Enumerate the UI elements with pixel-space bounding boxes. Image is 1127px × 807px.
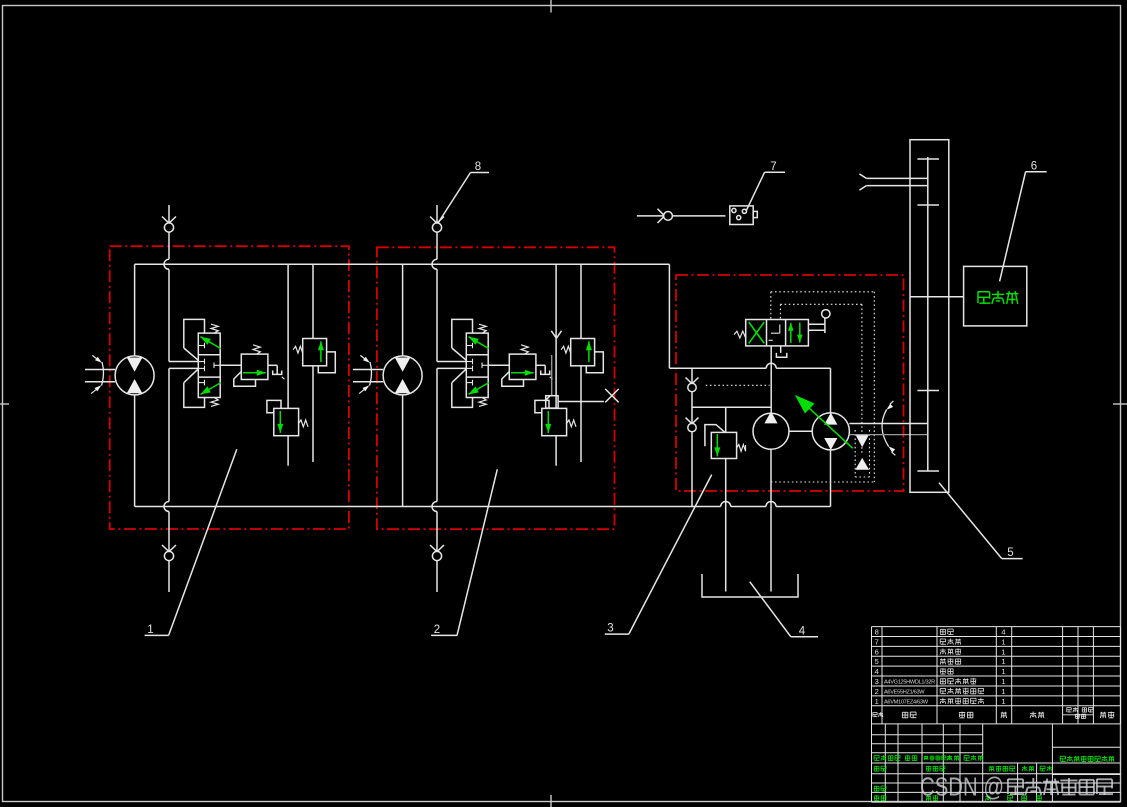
svg-text:A6VE55HZ1/63W: A6VE55HZ1/63W <box>884 689 925 695</box>
test coupling on line 7 <box>637 215 726 217</box>
svg-text:1: 1 <box>875 697 879 706</box>
charge check valve upper <box>855 434 869 447</box>
wire entry drop to pump group <box>668 264 670 368</box>
leader 8 <box>471 172 490 174</box>
gear tooth tick 1 <box>917 158 939 160</box>
svg-text:1: 1 <box>1001 697 1005 706</box>
svg-text:1: 1 <box>1001 647 1005 656</box>
leader 1 <box>145 634 169 636</box>
wire circuit1 left vertical lower <box>134 395 136 507</box>
proportional directional valve group, circuit 1 <box>184 319 205 348</box>
plugged port X symbol <box>605 389 619 403</box>
svg-text:7: 7 <box>875 637 879 646</box>
svg-text:A4VG125HWDL1/32R: A4VG125HWDL1/32R <box>884 680 935 686</box>
hydraulic fan motor M2 with fan symbol <box>383 356 422 395</box>
charge relief outlet to tank <box>725 459 727 592</box>
wire top rail <box>135 263 670 265</box>
hydraulic fan motor M1 with fan symbol <box>115 356 154 395</box>
wire circuit2 left vertical upper <box>402 264 404 356</box>
drain Y symbol, circuit 2 <box>551 331 556 339</box>
gearbox input fork <box>866 177 927 179</box>
charge relief inlet vertical <box>725 407 727 432</box>
svg-text:6: 6 <box>875 647 879 656</box>
gear tooth tick 4 <box>917 470 939 472</box>
svg-text:CSDN @: CSDN @ <box>920 772 1004 802</box>
svg-text:1: 1 <box>1001 657 1005 666</box>
pilot valve supply vertical <box>770 346 772 413</box>
dotted control envelope outer <box>771 291 875 293</box>
pump interconnect line <box>789 430 812 432</box>
wire variable pump outlet vertical <box>830 450 832 507</box>
svg-text:1: 1 <box>1001 637 1005 646</box>
wire circuit2 left vertical lower <box>402 395 404 507</box>
svg-text:8: 8 <box>875 628 879 637</box>
title block green field labels <box>873 755 875 760</box>
proportional directional valve group, circuit 2 <box>452 319 473 348</box>
svg-text:8: 8 <box>475 161 481 173</box>
gear tooth tick 3 <box>917 390 939 392</box>
svg-text:4: 4 <box>875 667 879 676</box>
gauge line with test couplings, circuit 1 <box>168 205 170 223</box>
charge pump P1 <box>753 413 789 449</box>
centering tick top <box>550 0 552 13</box>
dotted control envelope inner <box>780 303 862 305</box>
svg-text:5: 5 <box>1007 547 1013 559</box>
leader 2 <box>431 634 457 636</box>
leader 5 <box>1002 558 1023 560</box>
svg-text:1: 1 <box>1001 677 1005 686</box>
pump group left vertical with test couplings <box>691 368 693 383</box>
leader 7 <box>765 171 785 173</box>
variable control green arrow <box>799 399 853 449</box>
plugged port line, circuit 2 <box>558 401 604 403</box>
gearbox internal shaft <box>927 157 929 471</box>
svg-text:7: 7 <box>770 161 776 173</box>
svg-text:4: 4 <box>799 625 806 637</box>
centering tick right <box>1113 403 1127 405</box>
pump drive shaft double line <box>849 423 927 425</box>
charge relief valve <box>711 432 736 458</box>
red dash-dot enclosure box 3 (pump group) <box>676 275 904 491</box>
centering tick bottom <box>550 795 552 807</box>
shaft rotation arrow <box>882 410 889 447</box>
pilot/servo control valve on pump <box>746 320 809 346</box>
title block grid <box>872 734 983 736</box>
svg-text:2: 2 <box>875 687 879 696</box>
wire pump suction header (with crossover jump) <box>669 367 766 369</box>
pilot line gray vertical, circuit 2 <box>551 355 553 396</box>
dotted check valve channel <box>854 430 856 477</box>
svg-text:3: 3 <box>875 677 879 686</box>
wire bottom return rail (with crossover jumps) <box>135 506 721 508</box>
pilot valve drain to tank symbol <box>780 346 782 353</box>
gauge line with test couplings, circuit 2 <box>436 205 438 223</box>
red dash-dot enclosure box 1 (fan drive circuit 1) <box>110 246 349 529</box>
wire variable pump inlet vertical <box>830 368 832 413</box>
svg-text:6: 6 <box>1031 160 1037 172</box>
svg-text:1: 1 <box>1001 687 1005 696</box>
centering tick left <box>0 403 9 405</box>
svg-text:4: 4 <box>1001 628 1005 637</box>
BOM header text <box>872 712 874 716</box>
engine box <box>964 266 1027 326</box>
svg-text:1: 1 <box>1001 667 1005 676</box>
pilot check box, circuit 2 <box>546 396 558 408</box>
BOM table grid <box>872 626 1121 628</box>
drawing title 切割锯工作原理图 (green) <box>1059 756 1061 761</box>
gear tooth tick 2 <box>917 204 939 206</box>
charge pump outlet to tank <box>770 449 772 591</box>
svg-text:3: 3 <box>607 623 613 635</box>
engine label 发动机 (green) <box>977 291 979 303</box>
engine connection line <box>910 296 964 298</box>
svg-text:2: 2 <box>434 624 440 636</box>
red dash-dot enclosure box 2 (fan drive circuit 2) <box>377 247 615 529</box>
tank <box>702 574 798 597</box>
leader 4 <box>791 636 818 638</box>
svg-text:5: 5 <box>875 657 879 666</box>
dotted pilot sense line <box>706 384 770 386</box>
wire circuit1 left vertical upper <box>134 264 136 356</box>
leader 6 <box>1026 171 1047 173</box>
svg-text:1: 1 <box>147 624 153 636</box>
svg-text:A6VM107EZ4/63W: A6VM107EZ4/63W <box>884 699 929 705</box>
charge pressure branch line <box>692 406 771 408</box>
transfer gearbox housing <box>910 140 949 493</box>
charge check valve lower <box>855 458 869 470</box>
leader 3 <box>605 633 629 635</box>
variable displacement pump P2 <box>812 413 849 450</box>
component 7 block <box>730 206 753 225</box>
